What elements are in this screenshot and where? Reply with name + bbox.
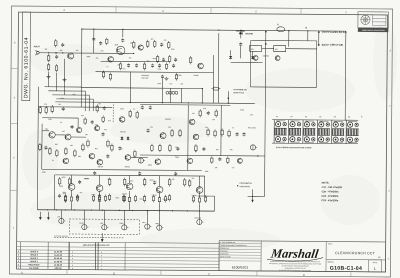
- svg-text:5: 5: [18, 254, 19, 256]
- emitter resistor group 5: [192, 195, 194, 203]
- svg-text:1st ISSUE: 1st ISSUE: [29, 267, 39, 270]
- svg-text:05-09-95: 05-09-95: [54, 258, 63, 260]
- svg-text:F1: F1: [277, 24, 279, 26]
- svg-text:B: B: [113, 272, 115, 276]
- svg-text:P1: P1: [276, 116, 278, 118]
- transformer T1 windings: [166, 91, 178, 94]
- wire rail drop V2: [122, 29, 124, 37]
- resistor Rd9: [195, 144, 197, 152]
- diode D1: [239, 32, 243, 35]
- pot VR3: [59, 218, 66, 223]
- gnd sym 1: [46, 75, 50, 78]
- svg-text:1: 1: [101, 268, 102, 270]
- wire stage2 out: [131, 156, 148, 158]
- resistor R10: [143, 62, 145, 70]
- capacitor C13: [102, 132, 105, 136]
- svg-text:INPUT: INPUT: [34, 46, 41, 48]
- svg-text:(C10) + C4B CT-A8): (C10) + C4B CT-A8): [322, 43, 343, 46]
- speaker jack J2: [39, 212, 42, 220]
- transistor TR9: [125, 155, 131, 161]
- capacitor Cd10: [202, 147, 205, 151]
- svg-text:100k: 100k: [205, 171, 209, 173]
- svg-text:10k: 10k: [216, 149, 219, 151]
- resistor R6: [147, 40, 149, 48]
- wire HT supply rail: [82, 29, 346, 31]
- capacitor C19a: [236, 132, 239, 136]
- resistor R30: [207, 128, 209, 136]
- resistor Rd0: [39, 143, 41, 151]
- dashed panel line: [54, 236, 124, 239]
- emitter resistor group 1: [64, 194, 66, 202]
- third-angle projection stamp: [358, 12, 389, 28]
- transistor TR14: [193, 134, 199, 140]
- svg-text:APR 95: APR 95: [54, 267, 62, 270]
- svg-text:10k: 10k: [215, 167, 218, 169]
- resistor R17: [49, 147, 51, 155]
- svg-text:5: 5: [101, 255, 102, 257]
- transistor TR8: [119, 117, 125, 123]
- svg-text:P3: P3: [305, 116, 307, 118]
- transistor TR12: [189, 119, 195, 125]
- svg-text:1k: 1k: [107, 66, 109, 68]
- resistor R11: [102, 70, 104, 78]
- svg-text:CLEAN/CRUNCH CCT: CLEAN/CRUNCH CCT: [335, 251, 376, 255]
- svg-text:2: 2: [101, 265, 102, 267]
- diode D4: [120, 136, 123, 140]
- svg-text:P5: P5: [334, 117, 336, 119]
- junction: [288, 30, 289, 31]
- capacitor C8: [151, 64, 154, 68]
- resistor R32: [221, 128, 223, 136]
- svg-text:ISSUE 6: ISSUE 6: [30, 251, 39, 253]
- capacitor C9b: [99, 41, 102, 45]
- capacitor C21a: [218, 157, 221, 161]
- capacitor Cc2: [138, 172, 141, 176]
- svg-text:P2: P2: [291, 116, 293, 118]
- output transistor Q4: [156, 186, 163, 193]
- svg-text:50/350B: 50/350B: [245, 33, 253, 35]
- capacitor C16: [149, 106, 152, 110]
- transistor TR13: [160, 133, 166, 139]
- resistor Rd5: [151, 144, 153, 152]
- wire input signal: [39, 52, 133, 55]
- svg-text:VOL: VOL: [57, 216, 60, 218]
- svg-text:THIRD ANGLE PROJECTION: THIRD ANGLE PROJECTION: [362, 29, 386, 32]
- rotary pot P5: [332, 120, 345, 144]
- transistor TQ0: [63, 158, 69, 164]
- wire power amp supply bus: [37, 210, 214, 211]
- svg-text:2k7: 2k7: [192, 178, 195, 180]
- resistor Ro5: [143, 178, 145, 187]
- capacitor C10: [62, 107, 65, 111]
- resistor Ro7: [168, 178, 170, 187]
- svg-text:100p: 100p: [60, 98, 64, 100]
- resistor R21b: [84, 117, 86, 125]
- svg-text:F2: F2: [305, 27, 307, 29]
- capacitor C1: [55, 55, 58, 59]
- stage1 tail capacitor C31: [162, 58, 165, 62]
- svg-text:10n: 10n: [169, 83, 172, 85]
- pot VR2 level: [250, 145, 257, 150]
- resistor Ro4: [123, 178, 125, 187]
- power switch node: [228, 97, 230, 99]
- svg-text:A3: A3: [378, 256, 380, 259]
- resistor R23: [129, 110, 131, 118]
- capacitor C17a: [207, 111, 210, 115]
- resistor R45: [211, 87, 220, 90]
- svg-text:RELEASED: RELEASED: [29, 263, 40, 266]
- capacitor C11: [103, 106, 106, 110]
- svg-text:14-06-95: 14-06-95: [54, 264, 63, 267]
- capacitor C30: [239, 42, 242, 46]
- title block: [219, 241, 386, 272]
- resistor R16: [96, 104, 98, 112]
- transistor TR11: [275, 56, 280, 61]
- resistor R43: [168, 55, 170, 63]
- svg-text:2k2: 2k2: [118, 64, 121, 66]
- capacitor C20a: [243, 132, 246, 136]
- wire rail drop V1: [93, 29, 95, 53]
- resistor Rpa3: [123, 195, 125, 203]
- output transistor Q1: [68, 184, 75, 191]
- svg-text:10n: 10n: [150, 127, 153, 129]
- node feed top: [265, 31, 267, 33]
- resistor R46: [165, 62, 167, 70]
- resistor Ro0: [58, 177, 60, 186]
- svg-text:0R22: 0R22: [85, 178, 89, 180]
- svg-text:10k: 10k: [85, 134, 88, 136]
- svg-text:G10B-C1-04: G10B-C1-04: [330, 266, 362, 272]
- svg-text:BD139: BD139: [98, 166, 103, 168]
- regulator REG2: [274, 46, 286, 52]
- svg-text:ISSUE: ISSUE: [373, 262, 378, 264]
- wire drop stage1b: [129, 72, 131, 102]
- svg-text:68k: 68k: [60, 50, 63, 52]
- front panel dashed box: [69, 219, 139, 235]
- transistor TR4: [49, 132, 55, 138]
- svg-text:22k: 22k: [168, 127, 171, 129]
- valve V1a: [116, 46, 124, 54]
- footswitch arrow: [251, 200, 253, 203]
- capacitor Cpa1: [58, 194, 61, 198]
- resistor R15: [51, 105, 53, 113]
- svg-text:3: 3: [101, 262, 102, 264]
- svg-text:21-03-96: 21-03-96: [54, 251, 63, 253]
- transistor TR10: [253, 56, 258, 61]
- wire psu verticals: [217, 33, 220, 103]
- diode D5: [126, 136, 129, 140]
- svg-text:0: 0: [72, 258, 73, 260]
- emitter resistor group 3: [122, 195, 124, 203]
- wire fx vertical2: [220, 105, 222, 155]
- pot VR8: [157, 225, 164, 230]
- svg-text:22k: 22k: [203, 108, 206, 110]
- line out arrow: [101, 233, 103, 239]
- capacitor C5: [160, 43, 163, 47]
- wire psu drop a: [169, 88, 171, 102]
- wire emitter drop: [47, 72, 49, 87]
- wire stage2 jog2: [77, 118, 79, 127]
- svg-text:6100-CH-(X): 6100-CH-(X): [240, 186, 251, 188]
- svg-text:ISSUE 5: ISSUE 5: [30, 255, 39, 257]
- svg-text:14-11-95: 14-11-95: [54, 254, 63, 257]
- capacitor Cd8: [176, 147, 179, 151]
- svg-text:CHECKED: CHECKED: [220, 251, 228, 253]
- transistor TR1: [68, 53, 74, 59]
- capacitor C33b: [158, 64, 161, 68]
- svg-text:0: 0: [72, 252, 73, 254]
- svg-text:1u: 1u: [195, 151, 197, 153]
- control bank enclosure: [272, 119, 358, 122]
- svg-text:1n: 1n: [232, 127, 234, 129]
- svg-text:POTS VIEWED FROM SHAFT END & R: POTS VIEWED FROM SHAFT END & REAR: [276, 146, 312, 149]
- PSU board outline: [250, 40, 316, 87]
- resistor R34: [211, 156, 213, 164]
- diode D2: [229, 55, 232, 59]
- svg-text:22k: 22k: [147, 61, 150, 63]
- resistor Rpa7: [188, 179, 190, 187]
- svg-text:0: 0: [72, 261, 73, 263]
- svg-text:P6: P6: [348, 117, 350, 119]
- resistor R29: [179, 129, 181, 137]
- regulator REG1: [250, 45, 262, 51]
- resistor Ro3: [108, 177, 110, 186]
- capacitor C32: [174, 58, 177, 62]
- capacitor C2: [61, 43, 64, 47]
- wire psu col: [212, 55, 214, 103]
- wire stage1 mid: [101, 60, 169, 63]
- svg-text:2: 2: [18, 264, 19, 266]
- emitter resistor group 2: [92, 194, 94, 202]
- capacitor Co6: [153, 181, 156, 185]
- rotary pot P1: [274, 120, 287, 144]
- svg-text:22k: 22k: [180, 83, 183, 85]
- svg-text:(TO PV A & BV, A3, A4): (TO PV A & BV, A3, A4): [322, 31, 347, 34]
- svg-text:22u: 22u: [108, 178, 111, 180]
- capacitor Cd1: [44, 146, 47, 150]
- svg-text:10n: 10n: [98, 103, 101, 105]
- svg-text:0: 0: [72, 265, 73, 267]
- capacitor C6: [127, 63, 130, 67]
- svg-text:2k2: 2k2: [58, 104, 61, 106]
- svg-text:PRES: PRES: [155, 223, 159, 225]
- resistor R2: [55, 39, 57, 47]
- resistor R26: [199, 109, 201, 117]
- svg-text:10k: 10k: [130, 42, 133, 44]
- svg-text:22p: 22p: [198, 187, 201, 189]
- capacitor C7: [135, 63, 138, 67]
- capacitor C18a: [147, 129, 150, 133]
- svg-text:(6100 A3 A4): (6100 A3 A4): [233, 91, 244, 94]
- headphone jack J4: [197, 219, 204, 224]
- mains fuse F1: [277, 27, 285, 32]
- svg-text:2n2: 2n2: [115, 44, 118, 46]
- svg-text:ISSUE 4: ISSUE 4: [30, 257, 39, 260]
- resistor Ro8: [183, 178, 185, 187]
- node -15V rail: [318, 44, 320, 46]
- svg-text:220p: 220p: [240, 109, 244, 111]
- resistor R13: [39, 106, 41, 114]
- capacitor Co2: [78, 180, 81, 184]
- capacitor Cc3: [174, 172, 177, 176]
- wire PSU feed: [265, 32, 266, 197]
- resistor R9: [119, 62, 121, 70]
- svg-text:100n: 100n: [130, 180, 134, 182]
- resistor Rd3: [111, 143, 113, 151]
- pot VR1 gain: [138, 158, 145, 163]
- svg-text:10n: 10n: [123, 68, 126, 70]
- capacitor C3: [92, 37, 95, 41]
- transistor TR15: [198, 63, 204, 69]
- resistor R35: [227, 156, 229, 164]
- capacitor C4: [121, 38, 124, 42]
- node +15V rail: [318, 31, 320, 33]
- resistor R33: [228, 129, 230, 137]
- wire psu mid: [81, 87, 202, 90]
- resistor R3: [47, 63, 49, 71]
- svg-text:680: 680: [55, 144, 58, 146]
- output transistor Q3: [126, 183, 133, 190]
- svg-text:C2n - 47n/250n: C2n - 47n/250n: [322, 190, 339, 193]
- svg-text:22u: 22u: [95, 124, 98, 126]
- revision table: [17, 242, 219, 244]
- svg-text:100u: 100u: [171, 49, 175, 51]
- svg-text:1k5: 1k5: [70, 145, 73, 147]
- drawing-number box DWG No. 6100-61-04: [22, 12, 31, 101]
- input jack J1: [35, 50, 39, 55]
- resistor R1: [47, 54, 49, 62]
- wire drop stage1: [161, 79, 163, 103]
- resistor R31: [214, 129, 216, 137]
- resistor R24: [136, 111, 138, 119]
- svg-text:1u: 1u: [60, 122, 62, 124]
- output transistor Q5: [196, 187, 203, 194]
- wire stage1 low: [96, 71, 214, 74]
- pot VR6: [122, 225, 129, 230]
- ground sym psu: [164, 77, 168, 80]
- resistor R22: [107, 139, 109, 147]
- wire output top: [55, 175, 205, 176]
- resistor Rpa5: [168, 194, 170, 202]
- resistor R44: [189, 56, 191, 64]
- output transistor Q2: [96, 185, 103, 192]
- svg-text:A: A: [21, 271, 23, 275]
- wire right rail drop: [344, 31, 347, 120]
- resistor R4: [55, 64, 57, 72]
- resistor R14: [45, 106, 47, 114]
- svg-text:ISSUE 3: ISSUE 3: [30, 261, 39, 263]
- svg-text:C22 - 47n/250n: C22 - 47n/250n: [322, 195, 339, 198]
- wire psu drop b: [180, 88, 182, 102]
- svg-text:NOTE:: NOTE:: [322, 181, 330, 184]
- resistor R28: [171, 129, 173, 137]
- transistor TR6: [76, 127, 81, 132]
- resistor R7: [154, 40, 156, 48]
- resistor R8: [168, 41, 170, 49]
- gnd sym 2: [62, 78, 66, 81]
- pot VR5: [102, 225, 109, 230]
- svg-text:3: 3: [18, 261, 19, 263]
- speaker jack J3: [47, 212, 50, 220]
- node A staircase: [44, 86, 81, 88]
- capacitor Cpa2: [76, 195, 79, 199]
- resistor Rpa2: [108, 193, 110, 201]
- svg-text:FOOTSWITCH: FOOTSWITCH: [240, 183, 253, 185]
- svg-text:0: 0: [72, 268, 73, 270]
- svg-text:0R22: 0R22: [150, 180, 154, 182]
- wire fx vertical: [187, 105, 190, 170]
- svg-text:1k: 1k: [52, 160, 54, 162]
- svg-text:10n: 10n: [212, 119, 215, 121]
- capacitor C14: [106, 154, 109, 158]
- svg-text:22n: 22n: [101, 50, 104, 52]
- wire drop2: [55, 73, 57, 91]
- wire fx mid: [140, 154, 265, 157]
- transistor TQ2: [155, 159, 161, 165]
- wire drop3: [63, 59, 65, 95]
- svg-text:DWG. No. 6100-61-04: DWG. No. 6100-61-04: [23, 37, 29, 98]
- svg-text:C23 - 47n/250n: C23 - 47n/250n: [322, 199, 339, 202]
- transistor TR5: [65, 134, 71, 140]
- svg-text:TO PWR: TO PWR: [236, 31, 245, 33]
- svg-text:TO POWER SW: TO POWER SW: [233, 89, 246, 91]
- resistor Rd6: [159, 144, 161, 152]
- resistor R20: [74, 149, 76, 157]
- svg-text:1M2: 1M2: [72, 94, 75, 96]
- svg-text:MJE: MJE: [60, 186, 63, 188]
- resistor R25: [134, 150, 136, 158]
- capacitor C15: [141, 106, 144, 110]
- svg-text:100k: 100k: [158, 69, 162, 71]
- wire left drop to output: [36, 87, 39, 210]
- transistor TQ3: [187, 158, 193, 164]
- svg-text:PHONES: PHONES: [194, 217, 201, 219]
- svg-text:1: 1: [18, 268, 19, 270]
- svg-text:0: 0: [72, 255, 73, 257]
- resistor Rpa4: [143, 195, 145, 203]
- wire pa left: [53, 175, 55, 210]
- svg-text:EQ 1206: EQ 1206: [141, 78, 148, 80]
- svg-text:220k: 220k: [120, 108, 124, 110]
- wire bank feed: [345, 119, 358, 121]
- rotary pot P6: [346, 120, 359, 144]
- svg-text:24/350V: 24/350V: [263, 54, 270, 57]
- svg-text:AMPLIFICATION DIVISION 6100: AMPLIFICATION DIVISION 6100: [83, 244, 110, 247]
- pot VR4: [82, 224, 89, 229]
- resistor R21c: [102, 115, 104, 123]
- svg-text:1n: 1n: [133, 108, 135, 110]
- rotary pot P2: [288, 120, 301, 144]
- resistor R21: [87, 139, 89, 147]
- svg-text:6100/6101: 6100/6101: [232, 265, 249, 269]
- svg-text:C: C: [388, 257, 390, 260]
- junction dots on ground bus: [130, 102, 131, 103]
- diode D3: [251, 55, 254, 59]
- resistor R5: [133, 41, 135, 49]
- transistor TR6b: [95, 126, 100, 131]
- wire psu low: [231, 61, 263, 63]
- svg-text:C17 - C21 47n/250: C17 - C21 47n/250: [322, 186, 343, 189]
- resistor Rpa1: [98, 193, 100, 201]
- svg-text:21-06-95: 21-06-95: [54, 261, 63, 263]
- wire stage2 ground bus: [42, 169, 202, 170]
- emitter resistor group 4: [152, 195, 154, 203]
- transistor TQ1: [97, 159, 103, 165]
- transistor TR3: [108, 56, 114, 62]
- resistor R19: [65, 147, 67, 155]
- wire rail drop left: [80, 29, 83, 107]
- svg-text:6100 PCB ISSUE 6: 6100 PCB ISSUE 6: [54, 236, 68, 238]
